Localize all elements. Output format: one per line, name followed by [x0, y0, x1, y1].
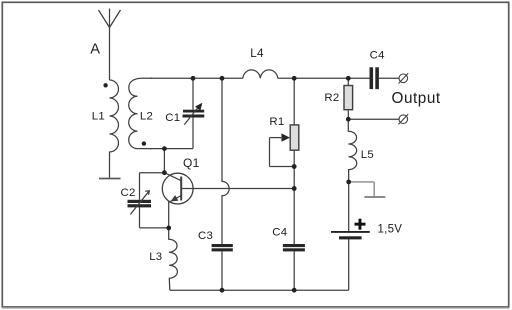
output terminal 2	[399, 114, 409, 124]
svg-text:C4: C4	[272, 226, 287, 238]
svg-text:C2: C2	[121, 187, 136, 199]
svg-text:R1: R1	[269, 116, 284, 128]
svg-text:Output: Output	[392, 90, 441, 107]
node L5 bottom / battery	[346, 180, 351, 185]
svg-text:L1: L1	[92, 111, 105, 123]
node top rail / C1	[191, 76, 196, 81]
node top rail / R2	[346, 76, 351, 81]
wire battery bottom	[348, 239, 350, 290]
node bottom rail / C3	[220, 288, 225, 293]
wire R1 branch	[293, 78, 295, 125]
inductor L2	[129, 78, 152, 148]
wire battery top	[348, 182, 350, 232]
inductor L1	[110, 80, 119, 179]
wire top rail right	[278, 77, 370, 79]
inductor L5	[348, 119, 356, 182]
capacitor C4 (bottom)	[283, 244, 305, 290]
node bottom rail / C4	[292, 288, 297, 293]
wire emitter	[168, 202, 170, 228]
ground (under L1)	[99, 178, 121, 180]
node emitter / C2 / L3	[166, 226, 171, 231]
output terminal 1	[399, 73, 409, 83]
ground (near L5)	[364, 196, 385, 198]
wire R2 branch	[347, 78, 349, 85]
wire C1 branch bottom	[192, 118, 194, 149]
resistor R1	[270, 125, 299, 167]
wire collector branch	[163, 149, 165, 173]
node R1 bottom / base	[292, 186, 297, 191]
svg-text:R2: R2	[324, 92, 339, 104]
wire L2 bottom node	[150, 148, 193, 150]
capacitor C4 (top, series)	[370, 67, 399, 89]
svg-text:C4: C4	[370, 50, 385, 62]
wire output 2	[348, 118, 399, 120]
svg-text:L4: L4	[250, 46, 264, 60]
node top rail / R1	[292, 76, 297, 81]
resistor R2	[344, 86, 353, 110]
node top rail / C3	[220, 76, 225, 81]
wire C1 branch top	[192, 78, 194, 109]
wire ground tap	[349, 182, 386, 197]
wire C3 branch	[222, 78, 229, 244]
transistor Q1	[162, 173, 193, 204]
svg-text:L5: L5	[361, 149, 374, 161]
capacitor C2	[128, 173, 169, 228]
wire top rail	[150, 77, 243, 79]
wire base lead	[181, 188, 294, 190]
node collector / C2	[162, 170, 167, 175]
svg-text:L3: L3	[149, 251, 162, 263]
wire bottom rail	[170, 289, 349, 291]
svg-text:1,5V: 1,5V	[378, 223, 403, 235]
svg-text:C1: C1	[165, 112, 180, 124]
node L1 phase dot	[103, 83, 107, 87]
svg-text:A: A	[90, 41, 100, 57]
svg-text:L2: L2	[140, 110, 153, 122]
node L2 phase dot	[142, 141, 146, 145]
node R1 wiper	[292, 164, 297, 169]
inductor L3	[169, 228, 178, 290]
wire R1 bottom to C4	[293, 150, 295, 244]
node R2 bottom / output 2	[346, 117, 351, 122]
antenna A	[99, 9, 121, 81]
node L2 bottom / collector branch	[162, 146, 167, 151]
capacitor C1	[183, 103, 205, 125]
inductor L4	[243, 70, 278, 78]
svg-text:C3: C3	[198, 230, 213, 242]
svg-text:Q1: Q1	[183, 156, 200, 170]
battery 1,5V	[331, 219, 370, 240]
capacitor C3	[212, 244, 233, 290]
